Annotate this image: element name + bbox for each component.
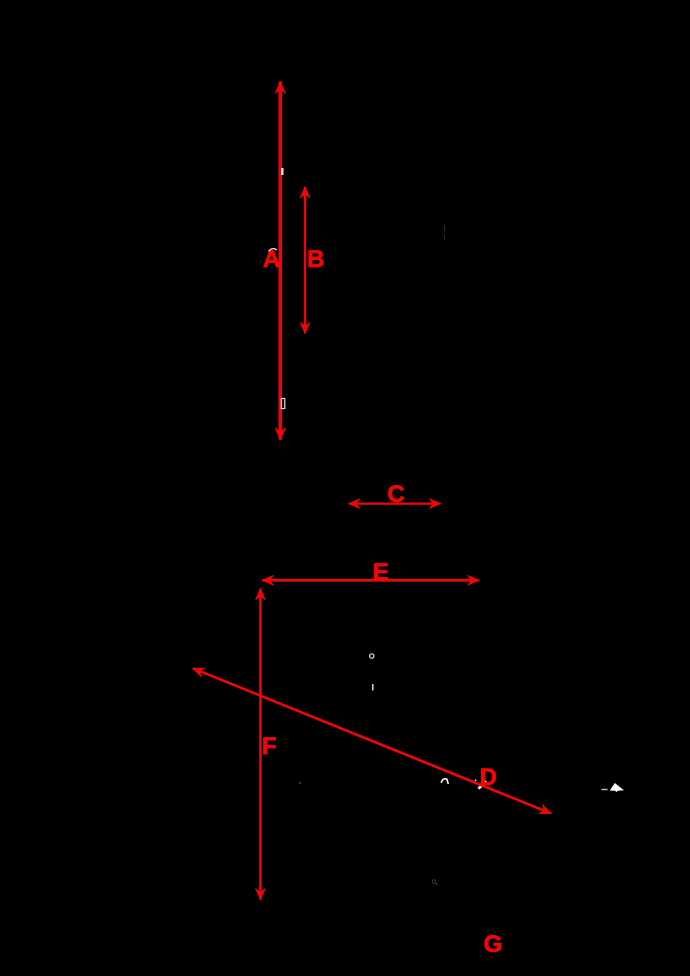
svg-text:D: D [480, 764, 497, 791]
white streak below label D [478, 781, 486, 788]
faint gray dot mid left [299, 782, 302, 785]
dimension arrow F (long vertical lower) [259, 589, 261, 900]
white squiggle a-shape left of label D [441, 779, 448, 784]
svg-text:F: F [262, 733, 277, 760]
dimension arrow E (horizontal) [262, 579, 479, 582]
dimension arrow C (small horizontal) [349, 502, 441, 504]
dimension arrow A (long vertical) [278, 82, 282, 440]
dimension arrow B (short vertical) [304, 187, 306, 334]
white triangle right side [610, 783, 624, 792]
dimension arrow D (diagonal) [193, 668, 551, 813]
faint dashed vertical line upper right [443, 225, 446, 232]
svg-text:C: C [387, 481, 404, 508]
white tick on arrow A upper shaft [281, 168, 284, 175]
white speck left of triangle [602, 789, 608, 790]
svg-text:E: E [373, 559, 389, 586]
svg-text:A: A [263, 246, 280, 273]
white speck e-shape near node above D line [370, 654, 374, 658]
faint gray mark lower middle [432, 880, 436, 884]
white speck bar below e-shape [372, 684, 374, 691]
svg-text:G: G [484, 931, 503, 958]
white arc above label A [269, 249, 278, 252]
svg-text:B: B [307, 246, 324, 273]
white box outline on arrow A lower shaft [281, 399, 285, 409]
